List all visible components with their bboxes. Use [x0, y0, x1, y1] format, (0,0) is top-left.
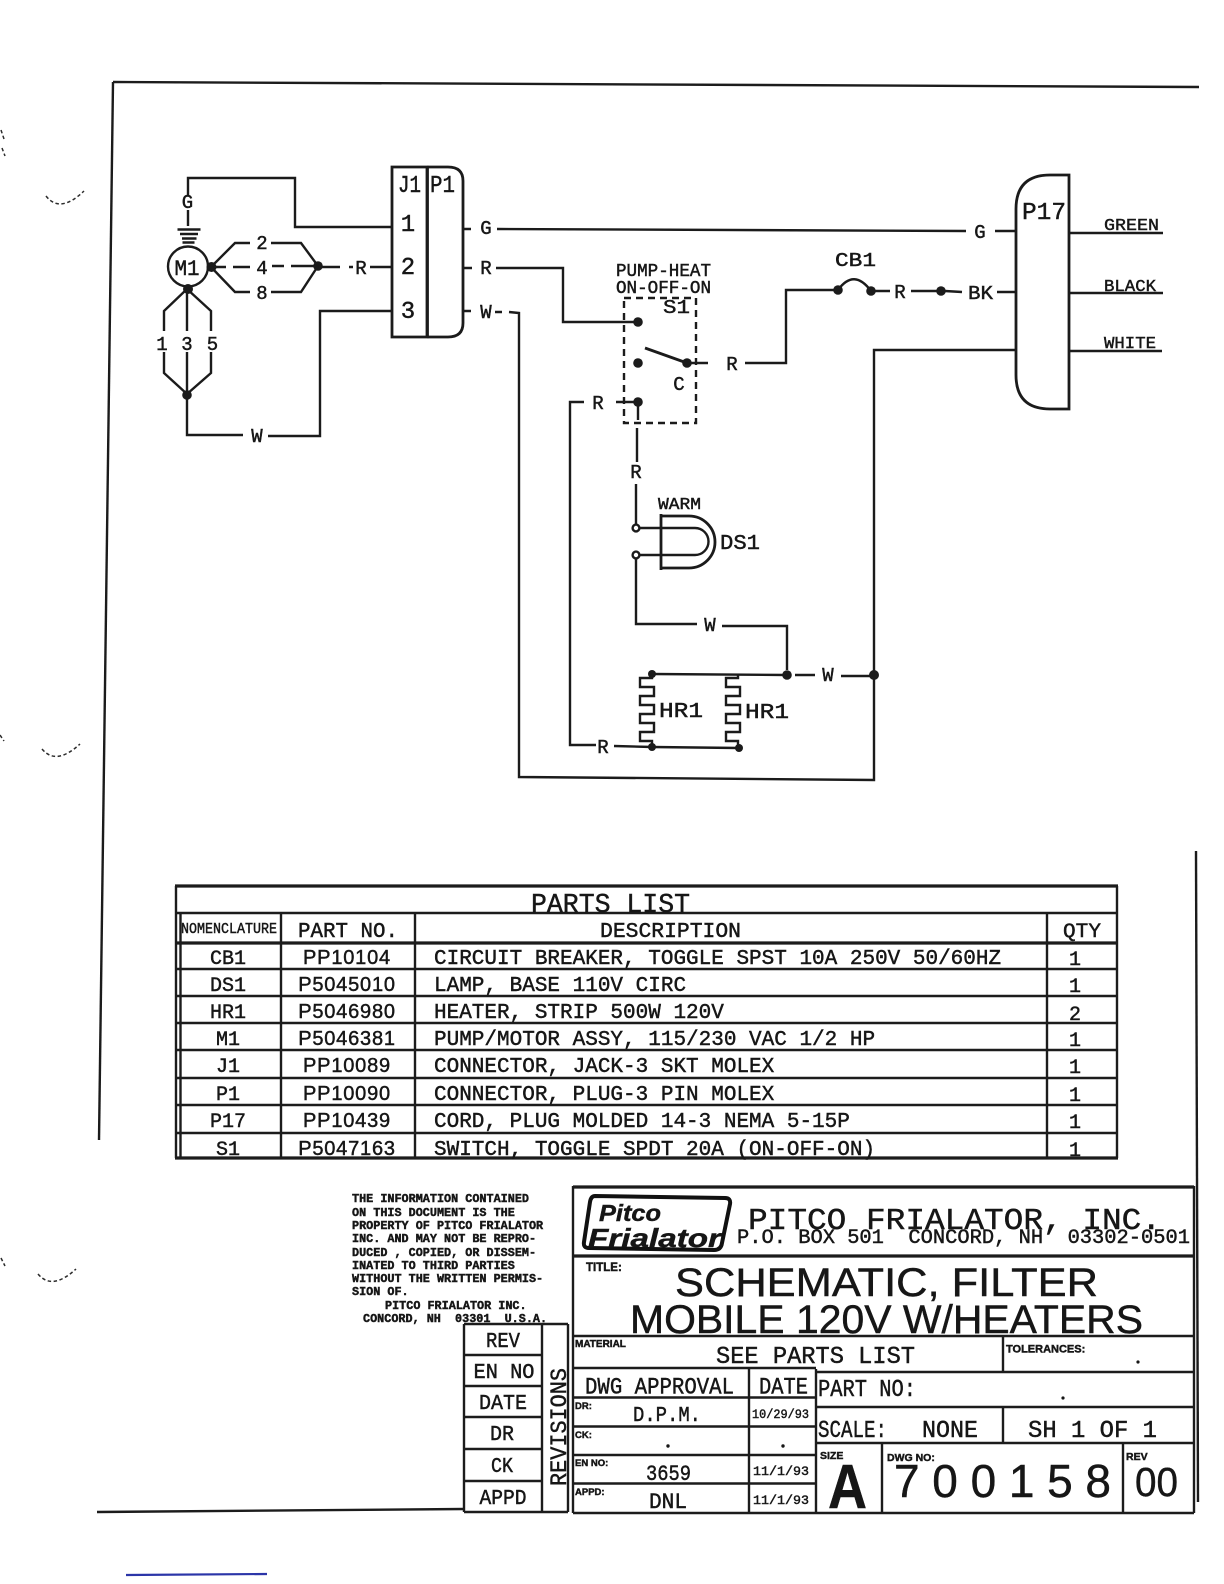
svg-text:J1: J1: [216, 1056, 240, 1079]
svg-text:R: R: [630, 462, 641, 484]
svg-text:1: 1: [156, 334, 167, 356]
svg-text:00: 00: [1135, 1459, 1178, 1505]
svg-text:1: 1: [1069, 976, 1081, 999]
svg-text:4: 4: [256, 258, 267, 280]
svg-text:PP10089: PP10089: [303, 1055, 391, 1077]
svg-text:GREEN: GREEN: [1104, 217, 1159, 236]
svg-text:2: 2: [401, 255, 415, 282]
svg-text:P1: P1: [430, 173, 455, 200]
svg-text:QTY: QTY: [1063, 921, 1101, 944]
svg-text:WHITE: WHITE: [1104, 335, 1156, 354]
svg-text:HR1: HR1: [745, 702, 789, 725]
svg-text:SH 1 OF 1: SH 1 OF 1: [1028, 1418, 1157, 1445]
svg-text:1: 1: [1069, 1057, 1081, 1080]
svg-text:R: R: [480, 258, 491, 280]
svg-text:BLACK: BLACK: [1104, 278, 1157, 297]
svg-text:PUMP/MOTOR ASSY, 115/230 VAC 1: PUMP/MOTOR ASSY, 115/230 VAC 1/2 HP: [434, 1029, 875, 1052]
svg-text:J1: J1: [398, 173, 421, 200]
svg-text:LAMP, BASE 110V CIRC: LAMP, BASE 110V CIRC: [434, 975, 686, 998]
svg-text:CIRCUIT BREAKER, TOGGLE SPST 1: CIRCUIT BREAKER, TOGGLE SPST 10A 250V 50…: [434, 948, 1001, 971]
svg-text:TITLE:: TITLE:: [586, 1262, 622, 1274]
svg-text:DATE: DATE: [479, 1393, 527, 1416]
svg-text:1: 1: [1069, 1140, 1081, 1163]
svg-text:DUCED , COPIED, OR DISSEM-: DUCED , COPIED, OR DISSEM-: [352, 1246, 536, 1260]
svg-text:1: 1: [1069, 1112, 1081, 1135]
svg-text:WARM: WARM: [658, 496, 701, 515]
svg-text:CORD, PLUG MOLDED 14-3 NEMA 5-: CORD, PLUG MOLDED 14-3 NEMA 5-15P: [434, 1111, 850, 1134]
svg-text:P17: P17: [210, 1111, 246, 1134]
svg-text:3: 3: [401, 299, 415, 326]
svg-text:P5046980: P5046980: [298, 1001, 396, 1023]
svg-text:APPD: APPD: [480, 1488, 527, 1511]
svg-text:HEATER, STRIP 500W 120V: HEATER, STRIP 500W 120V: [434, 1002, 724, 1025]
svg-text:1: 1: [1069, 1085, 1081, 1108]
svg-text:M1: M1: [216, 1029, 240, 1052]
svg-text:2: 2: [256, 233, 267, 255]
svg-text:MATERIAL: MATERIAL: [575, 1339, 626, 1350]
svg-text:3: 3: [181, 334, 192, 356]
svg-text:R: R: [355, 258, 366, 280]
svg-text:WITHOUT THE WRITTEN PERMIS-: WITHOUT THE WRITTEN PERMIS-: [352, 1272, 543, 1286]
svg-text:REV: REV: [486, 1331, 520, 1354]
svg-text:R: R: [894, 282, 905, 304]
svg-text:REVISIONS: REVISIONS: [547, 1368, 573, 1486]
svg-text:S1: S1: [216, 1139, 240, 1162]
svg-text:D.P.M.: D.P.M.: [633, 1405, 701, 1428]
svg-text:3659: 3659: [646, 1462, 691, 1487]
svg-text:CB1: CB1: [835, 250, 876, 272]
svg-text:11/1/93: 11/1/93: [753, 1493, 809, 1508]
svg-text:W: W: [822, 665, 834, 687]
svg-text:G: G: [480, 218, 491, 240]
svg-text:SEE PARTS LIST: SEE PARTS LIST: [716, 1344, 915, 1371]
svg-text:C: C: [673, 374, 684, 396]
svg-text:EN NO: EN NO: [474, 1362, 535, 1385]
svg-text:ON THIS DOCUMENT IS THE: ON THIS DOCUMENT IS THE: [352, 1206, 515, 1220]
svg-text:M1: M1: [175, 257, 200, 282]
svg-text:P5046381: P5046381: [298, 1028, 396, 1050]
svg-text:11/1/93: 11/1/93: [753, 1464, 809, 1479]
svg-text:DATE: DATE: [759, 1375, 808, 1401]
svg-text:PROPERTY OF PITCO FRIALATOR: PROPERTY OF PITCO FRIALATOR: [352, 1219, 544, 1233]
svg-text:HR1: HR1: [210, 1002, 246, 1025]
svg-text:P5047163: P5047163: [298, 1138, 396, 1160]
svg-text:TOLERANCES:: TOLERANCES:: [1006, 1344, 1085, 1356]
svg-text:R: R: [592, 393, 603, 415]
svg-text:PART NO:: PART NO:: [818, 1377, 916, 1404]
svg-text:P1: P1: [216, 1084, 240, 1107]
svg-text:PP10439: PP10439: [303, 1110, 391, 1132]
svg-text:PITCO FRIALATOR INC.: PITCO FRIALATOR INC.: [385, 1299, 527, 1313]
svg-text:W: W: [704, 615, 716, 637]
svg-text:1: 1: [1069, 1030, 1081, 1053]
svg-text:2: 2: [1069, 1004, 1081, 1027]
svg-text:DESCRIPTION: DESCRIPTION: [600, 921, 741, 944]
svg-text:SION OF.: SION OF.: [352, 1285, 409, 1299]
svg-text:P.O. BOX 501 CONCORD, NH 033: P.O. BOX 501 CONCORD, NH 03302-0501: [737, 1227, 1190, 1250]
svg-text:BK: BK: [968, 283, 994, 305]
svg-text:INC. AND MAY NOT BE REPRO-: INC. AND MAY NOT BE REPRO-: [352, 1232, 536, 1246]
svg-text:W: W: [480, 302, 492, 324]
svg-text:5: 5: [207, 334, 218, 356]
svg-text:P5045010: P5045010: [298, 974, 396, 996]
svg-text:DNL: DNL: [649, 1490, 687, 1515]
svg-text:EN NO:: EN NO:: [575, 1458, 608, 1469]
svg-text:DR:: DR:: [575, 1401, 592, 1412]
svg-text:P17: P17: [1022, 200, 1066, 227]
svg-text:G: G: [974, 222, 985, 244]
svg-text:1: 1: [401, 212, 415, 239]
svg-text:CONNECTOR, PLUG-3 PIN MOLEX: CONNECTOR, PLUG-3 PIN MOLEX: [434, 1084, 775, 1107]
svg-text:THE INFORMATION CONTAINED: THE INFORMATION CONTAINED: [352, 1192, 529, 1206]
svg-text:INATED TO THIRD PARTIES: INATED TO THIRD PARTIES: [352, 1259, 515, 1273]
svg-text:10/29/93: 10/29/93: [752, 1407, 809, 1422]
svg-text:SWITCH, TOGGLE SPDT 20A (ON-OF: SWITCH, TOGGLE SPDT 20A (ON-OFF-ON): [434, 1139, 875, 1162]
svg-text:CB1: CB1: [210, 948, 246, 971]
svg-text:SCALE:: SCALE:: [818, 1418, 887, 1445]
svg-text:DR: DR: [490, 1424, 514, 1447]
svg-text:DS1: DS1: [210, 975, 246, 998]
svg-text:R: R: [597, 737, 608, 759]
svg-text:NOMENCLATURE: NOMENCLATURE: [181, 921, 277, 938]
svg-text:MOBILE 120V W/HEATERS: MOBILE 120V W/HEATERS: [630, 1298, 1143, 1342]
svg-text:1: 1: [1069, 949, 1081, 972]
svg-text:HR1: HR1: [659, 701, 703, 724]
svg-text:DS1: DS1: [720, 533, 760, 556]
svg-text:ON-OFF-ON: ON-OFF-ON: [616, 279, 711, 299]
svg-text:NONE: NONE: [922, 1418, 978, 1445]
svg-text:W: W: [251, 426, 263, 448]
svg-text:A: A: [828, 1453, 867, 1522]
svg-text:G: G: [182, 192, 193, 214]
svg-text:PP10104: PP10104: [303, 947, 391, 969]
svg-text:Frialator: Frialator: [588, 1223, 723, 1253]
svg-text:PP10090: PP10090: [303, 1083, 391, 1105]
svg-text:PARTS LIST: PARTS LIST: [531, 891, 690, 921]
svg-text:8: 8: [256, 283, 267, 305]
svg-text:S1: S1: [663, 297, 690, 319]
svg-text:PART NO.: PART NO.: [298, 921, 398, 944]
svg-text:CONNECTOR, JACK-3 SKT MOLEX: CONNECTOR, JACK-3 SKT MOLEX: [434, 1056, 775, 1079]
svg-text:DWG APPROVAL: DWG APPROVAL: [585, 1375, 734, 1401]
svg-text:R: R: [726, 354, 737, 376]
svg-text:APPD:: APPD:: [575, 1487, 605, 1498]
svg-text:CK:: CK:: [575, 1430, 592, 1441]
svg-text:CK: CK: [491, 1456, 513, 1479]
